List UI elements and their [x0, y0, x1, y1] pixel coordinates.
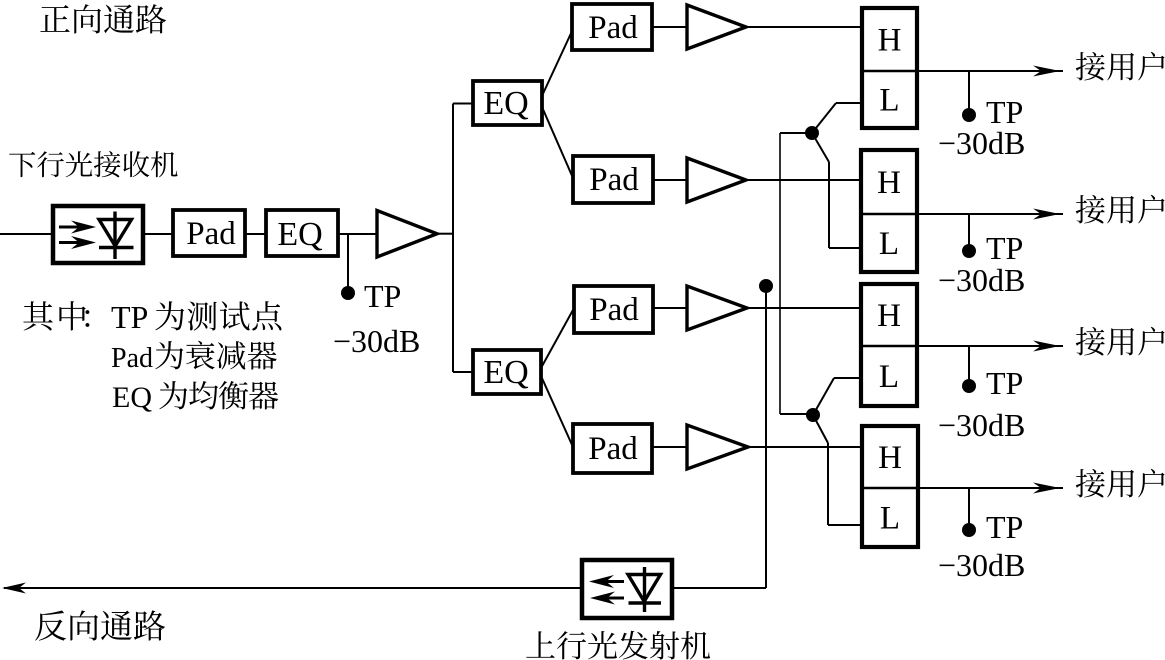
wire box3 L diagonal: [813, 378, 834, 415]
wire Pad1 to amp A1: [652, 26, 687, 28]
svg-text:−30dB: −30dB: [938, 407, 1025, 443]
svg-text:H: H: [877, 165, 901, 201]
diplex filter box2: [861, 150, 917, 272]
diplex filter box1 divider: [862, 70, 917, 73]
wire box4 L stub: [828, 524, 862, 526]
svg-text:Pad: Pad: [186, 216, 236, 252]
photodiode PD1 cathode lead: [113, 212, 116, 260]
svg-text:L: L: [879, 226, 899, 262]
diplex filter box4 divider: [862, 487, 918, 490]
return bus vertical x780: [779, 133, 781, 414]
output TP3 drop wire: [968, 346, 970, 381]
return line top dot: [759, 279, 773, 293]
output wire 3: [917, 345, 1063, 347]
optical receiver box: [53, 206, 143, 263]
TX light arrow 1 shaft: [604, 580, 624, 583]
wire box3 L stub: [834, 377, 861, 379]
wire A0 to splitter: [437, 233, 453, 235]
svg-text:EQ: EQ: [483, 85, 528, 122]
optical transmitter box: [582, 560, 672, 618]
label downstream optical receiver: [9, 151, 177, 177]
output arrow 1: [1033, 66, 1060, 77]
svg-text:H: H: [877, 298, 901, 334]
output TP2 dot: [962, 244, 976, 258]
svg-text:EQ: EQ: [483, 354, 528, 391]
attenuator Pad0 box: [173, 210, 245, 256]
amplifier A0: [377, 211, 437, 258]
label upstream optical transmitter: [526, 631, 710, 660]
label forward path: [40, 4, 166, 33]
wire box4 L vertical: [827, 443, 829, 525]
wire EQ0 to amp A0: [338, 233, 377, 235]
wire Pad2 to amp A2: [653, 179, 687, 181]
svg-text:EQ: EQ: [277, 216, 322, 253]
equalizer EQ2 box: [473, 350, 541, 394]
svg-text:−30dB: −30dB: [938, 125, 1025, 161]
svg-text:L: L: [879, 83, 899, 119]
wire Pad3 to amp A3: [653, 307, 687, 309]
junction J2 dot: [806, 408, 820, 422]
output TP2 drop wire: [968, 214, 970, 246]
wire box1 L diagonal: [812, 103, 836, 133]
svg-text:L: L: [880, 501, 900, 537]
output 1 user label: [1076, 52, 1165, 81]
svg-text:−30dB: −30dB: [333, 323, 420, 359]
wire splitter to EQ2: [453, 371, 473, 373]
splitter vertical line: [452, 104, 454, 373]
light arrow 2 shaft: [59, 241, 80, 244]
diplex filter box3: [861, 284, 917, 406]
diplex filter box4: [862, 426, 918, 547]
output wire 1: [917, 70, 1063, 72]
wire box2 L vertical: [828, 162, 830, 248]
output 4 user label: [1076, 469, 1165, 498]
TX light arrow 1 head: [589, 575, 614, 588]
wire J1 to box2 L diagonal: [812, 133, 829, 162]
diplex filter box2 divider: [861, 213, 917, 216]
equalizer EQ0 box: [266, 210, 338, 256]
amplifier A4: [687, 425, 748, 469]
svg-text:TP: TP: [111, 299, 148, 335]
wire J2 to box4 L diagonal: [813, 415, 828, 443]
svg-text:−30dB: −30dB: [938, 547, 1025, 583]
svg-text:TP: TP: [364, 278, 401, 314]
legend line2 wei-shuai-jian-qi: [155, 341, 276, 370]
test point TP0 dot: [341, 286, 355, 300]
photodiode PD1 cathode bar: [99, 246, 134, 249]
legend line3 wei-jun-heng-qi: [159, 381, 278, 410]
wire splitter to EQ1: [453, 103, 473, 105]
svg-text:H: H: [878, 440, 902, 476]
light arrow 1 shaft: [59, 226, 80, 229]
wire junction2 horizontal: [780, 413, 813, 415]
svg-text:L: L: [879, 359, 899, 395]
amplifier A2: [687, 158, 746, 202]
laser LD1 bar: [629, 601, 662, 604]
output wire 4: [917, 487, 1063, 489]
output TP1 dot: [962, 108, 976, 122]
wire EQ1 to Pad2 diagonal: [542, 107, 573, 178]
junction J1 dot: [805, 126, 819, 140]
amplifier A3: [687, 286, 747, 330]
output arrow 4: [1033, 483, 1060, 494]
output arrow 3: [1033, 341, 1060, 352]
svg-text:Pad: Pad: [588, 431, 638, 467]
wire EQ2 to Pad4 diagonal: [541, 376, 573, 447]
legend line1 wei-ce-shi-dian: [155, 301, 281, 330]
output 3 user label: [1076, 327, 1165, 356]
label reverse path: [35, 610, 165, 640]
photodiode PD1 triangle: [99, 220, 132, 247]
svg-text:H: H: [878, 23, 902, 59]
output 2 user label: [1076, 195, 1165, 224]
output arrow 2: [1033, 209, 1060, 220]
light arrow 1 head: [71, 221, 96, 234]
output TP1 drop wire: [968, 71, 970, 110]
wire Pad0 to EQ0: [245, 233, 266, 235]
attenuator Pad4 box: [573, 424, 652, 473]
svg-text:−30dB: −30dB: [938, 262, 1025, 298]
wire EQ2 to Pad3 diagonal: [541, 310, 573, 368]
output TP3 dot: [962, 379, 976, 393]
svg-text:Pad: Pad: [589, 292, 639, 328]
wire box1 L stub: [836, 102, 862, 104]
laser LD1 triangle: [628, 575, 661, 602]
return line vertical x766: [765, 286, 767, 588]
svg-text:EQ: EQ: [112, 381, 152, 414]
output wire 2: [917, 213, 1063, 215]
svg-text:TP: TP: [986, 230, 1023, 266]
return output arrow: [2, 583, 26, 594]
svg-text:Pad: Pad: [588, 10, 638, 46]
light arrow 2 head: [71, 236, 96, 249]
wire Pad4 to amp A4: [652, 446, 687, 448]
wire A4 to diplexer box4: [748, 446, 862, 448]
wire RX to Pad: [143, 233, 173, 235]
amplifier A1: [687, 5, 746, 49]
wire optical input: [0, 233, 53, 235]
svg-text:Pad: Pad: [111, 343, 153, 374]
svg-text:TP: TP: [986, 509, 1023, 545]
legend line1 colon: [85, 310, 89, 327]
output TP4 drop wire: [968, 488, 970, 525]
attenuator Pad1 box: [572, 4, 652, 50]
wire junction1 horizontal: [780, 132, 812, 134]
wire A2 to diplexer box2: [746, 179, 862, 181]
wire TX output: [671, 587, 766, 589]
return output wire: [4, 587, 582, 589]
wire box2 L stub: [829, 247, 861, 249]
laser LD1 lead: [643, 567, 646, 612]
wire EQ1 to Pad1 diagonal: [541, 29, 573, 98]
equalizer EQ1 box: [473, 81, 542, 125]
output TP4 dot: [962, 523, 976, 537]
wire A1 to diplexer box1: [746, 26, 862, 28]
legend line1 qizhong: [23, 301, 85, 330]
test point TP0 drop wire: [347, 234, 349, 288]
attenuator Pad3 box: [574, 286, 653, 333]
svg-text:TP: TP: [986, 365, 1023, 401]
TX light arrow 2 head: [590, 592, 615, 605]
diplex filter box1: [862, 8, 917, 128]
wire A3 to diplexer box3: [747, 307, 862, 309]
attenuator Pad2 box: [573, 156, 653, 203]
TX light arrow 2 shaft: [605, 597, 624, 600]
diplex filter box3 divider: [861, 345, 917, 348]
svg-text:Pad: Pad: [589, 162, 639, 198]
